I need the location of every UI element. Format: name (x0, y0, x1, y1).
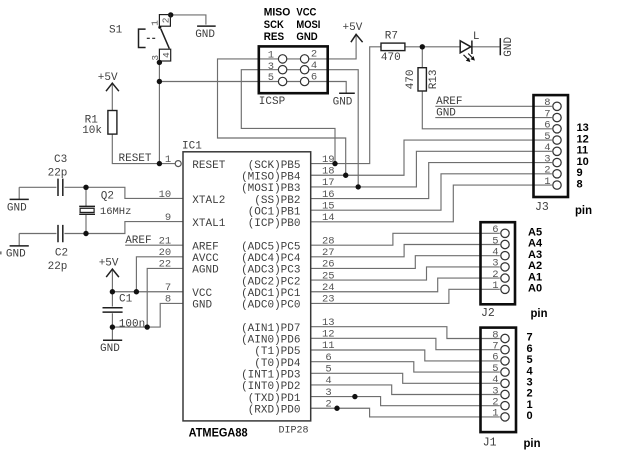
svg-text:8: 8 (165, 294, 171, 306)
svg-text:C1: C1 (119, 294, 133, 306)
svg-text:J2: J2 (481, 307, 495, 320)
svg-text:7: 7 (544, 108, 550, 120)
svg-text:14: 14 (322, 212, 335, 224)
svg-text:DIP28: DIP28 (279, 426, 309, 437)
svg-text:(INT1)PD3: (INT1)PD3 (241, 370, 300, 382)
svg-text:7: 7 (527, 332, 533, 344)
svg-text:12: 12 (322, 329, 335, 341)
svg-text:S1: S1 (109, 24, 123, 36)
svg-text:470: 470 (405, 69, 417, 89)
svg-text:4: 4 (325, 375, 331, 387)
svg-text:2: 2 (492, 397, 498, 409)
svg-text:GND: GND (296, 31, 317, 43)
svg-text:2: 2 (492, 269, 498, 281)
svg-text:J1: J1 (483, 437, 497, 450)
svg-text:GND: GND (333, 97, 353, 109)
svg-text:470: 470 (381, 52, 401, 64)
svg-text:RESET: RESET (192, 160, 225, 172)
svg-text:10: 10 (577, 156, 589, 168)
svg-text:5: 5 (325, 364, 331, 376)
svg-text:1: 1 (492, 408, 498, 420)
svg-text:13: 13 (577, 122, 589, 134)
svg-text:MISO: MISO (264, 7, 291, 19)
svg-text:GND: GND (503, 37, 515, 57)
svg-text:5: 5 (492, 235, 498, 247)
svg-text:GND: GND (6, 248, 26, 260)
svg-text:3: 3 (544, 153, 550, 165)
svg-text:(AIN0)PD6: (AIN0)PD6 (241, 335, 300, 347)
svg-text:(ADC1)PC1: (ADC1)PC1 (241, 288, 301, 300)
svg-text:(MISO)PB4: (MISO)PB4 (241, 171, 301, 183)
svg-text:MOSI: MOSI (296, 19, 320, 31)
svg-text:+5V: +5V (343, 22, 363, 34)
svg-text:VCC: VCC (192, 288, 212, 300)
svg-text:18: 18 (322, 165, 335, 177)
svg-text:25: 25 (322, 270, 335, 282)
svg-text:RESET: RESET (119, 153, 152, 165)
svg-text:(AIN1)PD7: (AIN1)PD7 (241, 323, 300, 335)
svg-text:IC1: IC1 (182, 141, 202, 153)
svg-text:+5V: +5V (98, 72, 118, 84)
svg-text:28: 28 (322, 235, 335, 247)
svg-text:16: 16 (322, 189, 335, 201)
svg-text:11: 11 (577, 145, 589, 157)
svg-text:AREF: AREF (125, 235, 151, 247)
svg-text:3: 3 (527, 377, 533, 389)
svg-text:5: 5 (492, 363, 498, 375)
svg-text:A4: A4 (528, 238, 543, 250)
svg-text:26: 26 (322, 259, 335, 271)
svg-text:4: 4 (161, 52, 172, 58)
svg-text:6: 6 (544, 120, 550, 132)
svg-text:C2: C2 (55, 247, 68, 259)
svg-text:(INT0)PD2: (INT0)PD2 (241, 381, 300, 393)
svg-text:8: 8 (544, 97, 550, 109)
svg-text:(ICP)PB0: (ICP)PB0 (248, 218, 301, 230)
svg-text:R7: R7 (385, 30, 398, 42)
svg-text:1: 1 (527, 399, 533, 411)
svg-text:2: 2 (544, 165, 550, 177)
svg-text:15: 15 (322, 200, 335, 212)
svg-text:A2: A2 (528, 260, 542, 272)
svg-text:4: 4 (492, 247, 498, 259)
svg-text:6: 6 (311, 72, 317, 84)
svg-text:pin: pin (531, 306, 548, 320)
svg-text:(TXD)PD1: (TXD)PD1 (248, 393, 301, 405)
svg-text:GND: GND (192, 300, 212, 312)
svg-text:2: 2 (325, 398, 331, 410)
svg-text:(RXD)PD0: (RXD)PD0 (248, 404, 301, 416)
svg-text:27: 27 (322, 247, 335, 259)
svg-text:GND: GND (7, 202, 27, 214)
svg-text:4: 4 (311, 60, 317, 72)
svg-text:AREF: AREF (192, 241, 218, 253)
svg-text:(ADC0)PC0: (ADC0)PC0 (241, 300, 300, 312)
svg-text:0: 0 (527, 410, 533, 422)
svg-text:7: 7 (165, 282, 171, 294)
svg-text:GND: GND (195, 29, 215, 41)
svg-text:7: 7 (492, 341, 498, 353)
svg-text:(OC1)PB1: (OC1)PB1 (248, 206, 301, 218)
svg-text:(ADC3)PC3: (ADC3)PC3 (241, 265, 300, 277)
svg-text:5: 5 (544, 131, 550, 143)
svg-text:(ADC5)PC5: (ADC5)PC5 (241, 241, 300, 253)
svg-text:21: 21 (159, 235, 172, 247)
svg-text:(ADC4)PC4: (ADC4)PC4 (241, 253, 301, 265)
svg-text:22p: 22p (48, 261, 68, 273)
svg-text:AVCC: AVCC (192, 253, 219, 265)
svg-text:10: 10 (159, 189, 172, 201)
svg-text:J3: J3 (535, 201, 549, 214)
svg-text:6: 6 (325, 352, 331, 364)
svg-text:3: 3 (492, 385, 498, 397)
svg-text:22: 22 (159, 259, 172, 271)
svg-text:5: 5 (268, 72, 274, 84)
svg-text:16MHz: 16MHz (100, 206, 132, 218)
svg-text:3: 3 (268, 61, 274, 73)
svg-text:AGND: AGND (192, 265, 219, 277)
svg-text:22p: 22p (48, 168, 68, 180)
svg-text:(SCK)PB5: (SCK)PB5 (248, 160, 301, 172)
svg-text:10k: 10k (82, 125, 102, 137)
svg-text:ATMEGA88: ATMEGA88 (189, 425, 248, 439)
svg-text:20: 20 (159, 247, 172, 259)
svg-text:1: 1 (165, 154, 171, 166)
svg-text:5: 5 (527, 354, 533, 366)
svg-text:8: 8 (577, 178, 583, 190)
svg-text:6: 6 (492, 224, 498, 236)
svg-text:C3: C3 (54, 154, 67, 166)
svg-text:9: 9 (165, 212, 171, 224)
svg-text:4: 4 (492, 374, 498, 386)
svg-text:8: 8 (492, 329, 498, 341)
svg-text:A1: A1 (528, 271, 542, 283)
svg-text:pin: pin (524, 436, 541, 450)
svg-text:24: 24 (322, 282, 335, 294)
svg-text:(T0)PD4: (T0)PD4 (254, 358, 301, 370)
svg-text:XTAL1: XTAL1 (192, 218, 225, 230)
svg-text:A3: A3 (528, 249, 542, 261)
svg-text:RES: RES (264, 31, 284, 43)
svg-text:11: 11 (322, 340, 335, 352)
svg-text:4: 4 (527, 365, 534, 377)
svg-text:23: 23 (322, 294, 335, 306)
svg-text:(T1)PD5: (T1)PD5 (254, 346, 300, 358)
svg-text:(SS)PB2: (SS)PB2 (254, 195, 300, 207)
svg-text:4: 4 (544, 142, 550, 154)
svg-text:6: 6 (527, 343, 533, 355)
svg-text:Q2: Q2 (101, 191, 114, 203)
svg-text:(ADC2)PC2: (ADC2)PC2 (241, 276, 300, 288)
svg-text:(MOSI)PB3: (MOSI)PB3 (241, 183, 300, 195)
svg-text:L: L (473, 31, 480, 43)
svg-text:A0: A0 (528, 283, 542, 295)
svg-text:12: 12 (577, 133, 589, 145)
svg-text:13: 13 (322, 317, 335, 329)
svg-text:3: 3 (492, 258, 498, 270)
svg-text:17: 17 (322, 177, 335, 189)
svg-text:1: 1 (150, 20, 161, 26)
svg-text:A5: A5 (528, 227, 542, 239)
svg-text:2: 2 (311, 48, 317, 60)
svg-text:R13: R13 (428, 69, 440, 89)
svg-text:1: 1 (544, 176, 550, 188)
svg-text:pin: pin (575, 203, 592, 217)
svg-text:VCC: VCC (296, 7, 316, 19)
svg-text:9: 9 (577, 167, 583, 179)
svg-text:ICSP: ICSP (259, 96, 286, 108)
svg-text:GND: GND (436, 108, 456, 120)
svg-text:AREF: AREF (436, 96, 462, 108)
svg-text:2: 2 (527, 388, 533, 400)
svg-text:XTAL2: XTAL2 (192, 195, 225, 207)
svg-text:3: 3 (325, 387, 331, 399)
svg-text:SCK: SCK (264, 19, 284, 31)
svg-text:GND: GND (100, 343, 120, 355)
svg-text:6: 6 (492, 352, 498, 364)
svg-text:1: 1 (268, 50, 274, 62)
svg-text:+5V: +5V (99, 257, 119, 269)
svg-text:2: 2 (161, 17, 172, 23)
svg-text:1: 1 (492, 280, 498, 292)
svg-text:100n: 100n (119, 318, 145, 330)
